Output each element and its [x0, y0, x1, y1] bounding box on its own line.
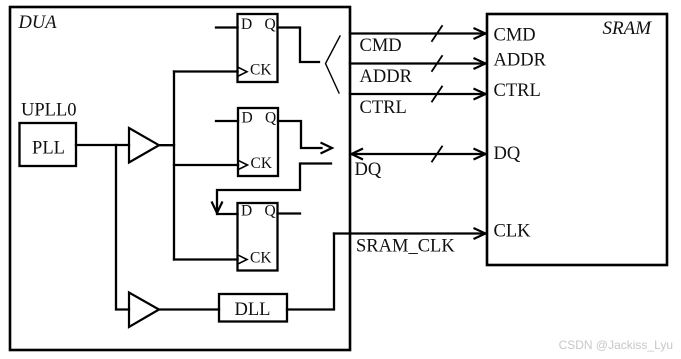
svg-text:D: D: [241, 202, 252, 219]
svg-text:D: D: [241, 16, 252, 33]
FF1 Q output wire: [278, 28, 320, 63]
svg-text:CLK: CLK: [494, 221, 532, 241]
svg-text:Q: Q: [265, 202, 276, 219]
DQ left arrowhead: [352, 149, 363, 159]
CTRL bus slash: [432, 87, 442, 102]
svg-text:Q: Q: [265, 109, 276, 126]
wire clock to FF3 CK: [174, 258, 238, 260]
SRAM_CLK arrowhead: [475, 229, 486, 239]
ADDR arrow line: [350, 62, 485, 64]
buffer B1: [129, 128, 159, 163]
svg-text:UPLL0: UPLL0: [21, 101, 77, 121]
PLL box: [20, 123, 77, 166]
wire B1 output to clock net: [159, 144, 174, 146]
svg-text:PLL: PLL: [32, 138, 65, 158]
wire arrow corner to FF3 D: [217, 213, 238, 215]
wire DLL output up to SRAM_CLK: [287, 234, 334, 310]
DLL box: [219, 294, 287, 322]
FF1 CK triangle: [238, 67, 248, 76]
FF2 CK triangle: [238, 160, 248, 169]
clock net vertical: [173, 72, 175, 260]
SRAM_CLK arrow line: [334, 232, 485, 234]
DUA box: [10, 7, 350, 350]
DQ right arrowhead: [475, 149, 486, 159]
wire clock to FF2 CK: [174, 164, 238, 166]
DQ out arrowhead: [322, 143, 333, 153]
CMD bus slash: [432, 26, 442, 41]
CTRL arrow line: [350, 93, 485, 95]
svg-text:Q: Q: [265, 16, 276, 33]
svg-text:D: D: [242, 109, 253, 126]
svg-text:SRAM: SRAM: [603, 18, 653, 39]
svg-text:SRAM_CLK: SRAM_CLK: [356, 236, 455, 256]
FF1 D input stub: [216, 26, 238, 28]
ADDR bus slash: [432, 56, 442, 71]
DQ input stub and feedback wire to FF3 D: [217, 164, 331, 213]
FF2 Q output wire to DQ out: [278, 121, 322, 148]
svg-text:CK: CK: [251, 155, 273, 172]
DQ bus slash: [432, 147, 442, 162]
svg-text:ADDR: ADDR: [360, 67, 413, 87]
wire PLL output: [76, 144, 129, 146]
svg-text:CK: CK: [250, 61, 272, 78]
bus fanout chevron: [326, 36, 341, 93]
FF2 D input stub: [216, 120, 238, 122]
flip-flop FF1 box: [238, 14, 278, 82]
wire clock to FF1 CK: [174, 70, 238, 72]
svg-text:CTRL: CTRL: [360, 98, 407, 118]
svg-text:CMD: CMD: [494, 26, 536, 46]
CMD arrowhead: [475, 29, 486, 39]
svg-text:DQ: DQ: [355, 160, 382, 180]
svg-text:CMD: CMD: [360, 36, 402, 56]
ADDR arrowhead: [475, 59, 486, 69]
wire PLL junction down to buffer B2: [116, 145, 129, 310]
svg-text:DQ: DQ: [494, 144, 521, 164]
flip-flop FF2 box: [238, 108, 278, 176]
CTRL arrowhead: [475, 89, 486, 99]
flip-flop FF3 box: [238, 203, 278, 271]
FF3 CK triangle: [238, 255, 248, 264]
DQ double arrow line: [352, 153, 485, 155]
svg-text:DLL: DLL: [235, 300, 271, 320]
svg-text:CK: CK: [250, 249, 272, 266]
buffer B2: [129, 293, 159, 328]
FF3 D down arrowhead: [212, 203, 222, 214]
svg-text:DUA: DUA: [18, 13, 58, 33]
svg-text:ADDR: ADDR: [494, 51, 547, 71]
svg-text:CTRL: CTRL: [494, 81, 541, 101]
CMD arrow line: [350, 32, 485, 34]
wire B2 output to DLL: [159, 308, 219, 310]
SRAM box: [487, 14, 667, 265]
FF3 Q output stub: [278, 212, 301, 214]
svg-text:CSDN @Jackiss_Lyu: CSDN @Jackiss_Lyu: [559, 338, 673, 352]
